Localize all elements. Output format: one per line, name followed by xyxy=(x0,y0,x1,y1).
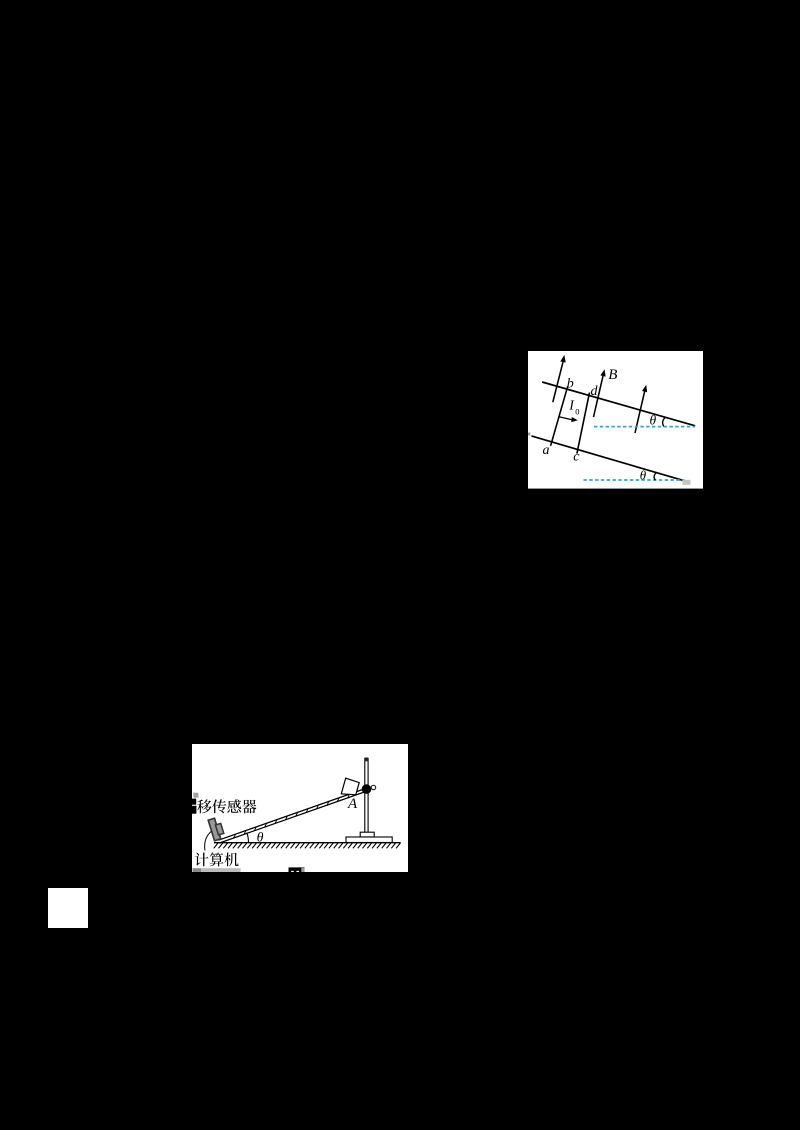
svg-text:θ: θ xyxy=(649,413,656,428)
svg-text:d: d xyxy=(590,384,598,399)
svg-text:θ: θ xyxy=(256,830,263,845)
svg-text:A: A xyxy=(346,796,357,812)
svg-text:b: b xyxy=(567,376,574,391)
svg-text:c: c xyxy=(573,450,580,465)
svg-text:a: a xyxy=(542,443,549,458)
svg-text:θ: θ xyxy=(640,468,647,483)
svg-text:0: 0 xyxy=(575,406,579,416)
svg-text:B: B xyxy=(608,367,617,383)
